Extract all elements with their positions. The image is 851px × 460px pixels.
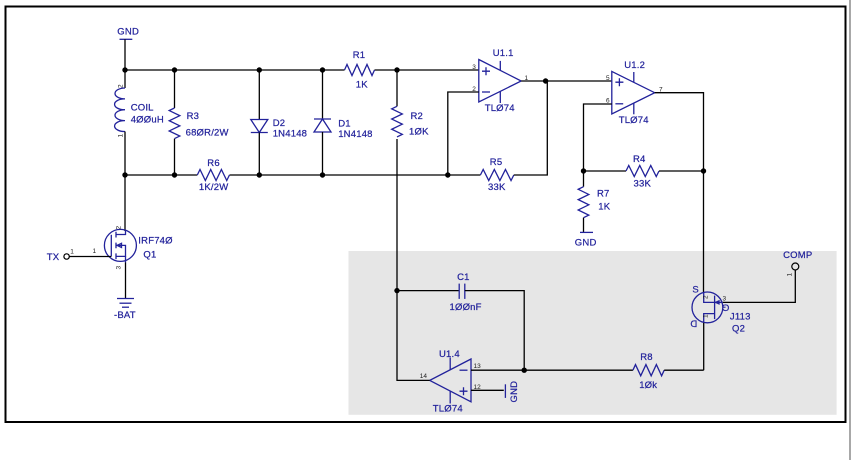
- GND power symbol at pin12 (rotated): [505, 381, 520, 403]
- wire GND stub: [124, 39, 126, 70]
- wire U1.2 pin6: [584, 104, 612, 171]
- coil L1 COIL 400uH: [115, 70, 164, 138]
- svg-text:1: 1: [787, 273, 794, 277]
- junction U1.1 pin2 / R5: [445, 172, 450, 177]
- GND power symbol under R7: [575, 232, 597, 248]
- junction D1 top rail: [320, 67, 325, 72]
- resistor R4 33K: [584, 154, 704, 190]
- COMP port: [783, 250, 812, 277]
- svg-text:C1: C1: [457, 272, 470, 283]
- right edge strip: [849, 0, 851, 460]
- wire COMP to Q2 gate: [723, 270, 796, 303]
- svg-text:Q2: Q2: [732, 324, 745, 335]
- junction coil bottom rail: [122, 172, 127, 177]
- svg-text:13: 13: [474, 363, 482, 370]
- wire U1.4 pin12 to GND: [471, 389, 504, 391]
- junction C1 / U1.4 pin13: [522, 368, 527, 373]
- junction R3 top rail: [172, 67, 177, 72]
- junction GND/coil on top rail: [122, 67, 127, 72]
- junction R4 / R7 / U1.2 pin6: [581, 168, 586, 173]
- resistor R1 1K: [345, 50, 375, 91]
- svg-text:1ØØnF: 1ØØnF: [450, 302, 482, 313]
- wire U1.2 output: [655, 93, 704, 292]
- svg-text:1ØK: 1ØK: [409, 127, 429, 138]
- svg-text:Q1: Q1: [143, 250, 156, 261]
- svg-text:R5: R5: [490, 157, 503, 168]
- svg-text:TX: TX: [47, 252, 60, 263]
- svg-text:GND: GND: [117, 27, 139, 38]
- svg-text:R7: R7: [597, 189, 610, 200]
- svg-text:R4: R4: [633, 154, 646, 165]
- svg-text:TLØ74: TLØ74: [433, 404, 463, 415]
- svg-text:14: 14: [420, 373, 428, 380]
- junction C1 / R2 / U1.4 output: [394, 288, 399, 293]
- wire U1.4 output: [397, 291, 430, 381]
- junction U1.1 output: [543, 78, 548, 83]
- svg-text:D1: D1: [338, 119, 351, 130]
- transistor Q2 J113: [690, 285, 750, 335]
- wire top rail right: [375, 69, 479, 71]
- junction D2 bottom rail: [257, 172, 262, 177]
- resistor R2 10K: [392, 70, 429, 291]
- svg-text:3: 3: [116, 266, 123, 270]
- junction R4 / U1.2 output: [701, 168, 706, 173]
- resistor R6 1K/2W: [197, 158, 229, 193]
- svg-text:U1.4: U1.4: [439, 349, 460, 360]
- svg-text:2: 2: [118, 84, 125, 88]
- svg-text:R8: R8: [640, 352, 653, 363]
- svg-text:R6: R6: [207, 158, 220, 169]
- svg-text:1: 1: [703, 314, 710, 318]
- wire top rail left: [125, 69, 345, 71]
- resistor R8 10k: [633, 352, 704, 391]
- wire U1.1 pin2: [448, 92, 479, 175]
- capacitor C1 100nF: [397, 272, 524, 370]
- svg-text:1Øk: 1Øk: [639, 380, 657, 391]
- svg-text:2: 2: [116, 226, 123, 230]
- svg-text:D: D: [690, 317, 697, 328]
- svg-text:-BAT: -BAT: [114, 310, 136, 321]
- wire Q2 drain down to R8 rail: [703, 323, 705, 370]
- svg-text:S: S: [692, 285, 699, 296]
- svg-text:R1: R1: [353, 50, 366, 61]
- svg-text:1N4148: 1N4148: [338, 129, 372, 140]
- junction R2 top rail: [394, 67, 399, 72]
- svg-text:R3: R3: [187, 111, 200, 122]
- svg-text:1K: 1K: [598, 202, 610, 213]
- transistor Q1 IRF740: [93, 226, 174, 270]
- svg-text:1: 1: [118, 134, 125, 138]
- svg-text:1: 1: [93, 248, 97, 255]
- svg-text:68ØR/2W: 68ØR/2W: [186, 128, 229, 139]
- svg-text:U1.2: U1.2: [624, 60, 645, 71]
- svg-text:33K: 33K: [634, 179, 652, 190]
- svg-text:GND: GND: [509, 381, 520, 403]
- svg-text:TLØ74: TLØ74: [619, 115, 649, 126]
- svg-text:COMP: COMP: [783, 250, 812, 261]
- svg-text:2: 2: [703, 295, 710, 299]
- wire U1.1 output: [521, 80, 612, 82]
- wire left vertical: [124, 132, 126, 232]
- op-amp U1.2 TL074: [606, 60, 663, 126]
- -BAT power symbol: [114, 299, 136, 322]
- svg-text:G: G: [722, 302, 730, 313]
- resistor R3 680R/2W: [169, 70, 229, 175]
- shaded region: [349, 251, 837, 415]
- wire bottom rail: [125, 174, 197, 176]
- svg-text:J113: J113: [730, 312, 751, 323]
- svg-text:1K: 1K: [356, 80, 368, 91]
- GND power symbol top: [117, 27, 139, 40]
- resistor R5 33K: [448, 81, 548, 193]
- diode D2 1N4148: [251, 70, 307, 175]
- wire Q1 source down: [125, 263, 127, 299]
- svg-text:1N4148: 1N4148: [273, 129, 307, 140]
- svg-text:COIL: COIL: [131, 103, 154, 114]
- diode D1 1N4148: [314, 70, 373, 175]
- svg-text:3: 3: [472, 64, 476, 71]
- svg-text:IRF74Ø: IRF74Ø: [138, 236, 173, 247]
- svg-text:1K/2W: 1K/2W: [199, 182, 229, 193]
- svg-text:33K: 33K: [488, 182, 506, 193]
- svg-text:TLØ74: TLØ74: [485, 103, 515, 114]
- wire U1.4 pin13 rail: [471, 369, 633, 371]
- resistor R7 1K: [578, 171, 611, 232]
- op-amp U1.1 TL074: [472, 48, 528, 114]
- svg-text:R2: R2: [411, 111, 424, 122]
- svg-text:U1.1: U1.1: [493, 48, 514, 59]
- op-amp U1.4 TL074 (mirrored): [420, 349, 481, 415]
- svg-text:5: 5: [606, 75, 610, 82]
- svg-text:3: 3: [723, 296, 727, 303]
- TX port: [47, 249, 75, 264]
- junction R3 bottom rail: [172, 172, 177, 177]
- svg-text:1: 1: [70, 249, 74, 256]
- svg-text:D2: D2: [273, 118, 286, 129]
- wire TX to gate: [69, 256, 111, 258]
- junction D1 bottom rail: [320, 172, 325, 177]
- svg-text:GND: GND: [575, 238, 597, 249]
- junction D2 top rail: [257, 67, 262, 72]
- svg-text:4ØØuH: 4ØØuH: [131, 115, 164, 126]
